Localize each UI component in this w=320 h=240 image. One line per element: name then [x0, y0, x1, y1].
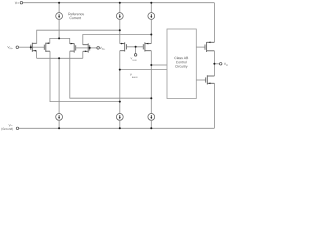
node: rail-I5: [119, 127, 121, 129]
transistor T4: [83, 43, 90, 52]
node: drain bus / I4: [58, 57, 60, 59]
current source I5: stem to rail: [119, 120, 121, 128]
terminal Vin+: [97, 47, 100, 50]
wire: T5 drain long drop to I5: [119, 51, 121, 114]
node: outer-left tail: [119, 29, 121, 31]
wire: Vin+ lead to T4 gate: [90, 47, 97, 49]
label Vbias2: [130, 74, 138, 78]
label (Ground): [1, 128, 13, 131]
terminal Vin-: [16, 46, 19, 49]
label Class AB Control Circuitry: [174, 57, 188, 59]
current source I3: arrow: [150, 14, 152, 18]
node: rail-I3: [150, 2, 152, 4]
node: T4 gate: [89, 47, 91, 49]
node: output: [213, 63, 215, 65]
wire: T3 drain down and right to I6 node: [70, 51, 152, 98]
current source I1 reference: stem from rail: [58, 3, 60, 13]
class AB control circuitry box U1: [167, 29, 196, 99]
current source I1 reference: arrow: [58, 14, 60, 18]
wire: inner pair tail (T2-T3 sources): [50, 38, 70, 43]
label V-: [9, 124, 13, 126]
node: rail-I4: [58, 127, 60, 129]
current source I5: arrow: [119, 115, 121, 119]
current source I4: stem to rail: [58, 120, 60, 128]
terminal Vo: [219, 63, 222, 66]
node: T6 drain box tap: [150, 64, 152, 66]
node: T5 drain box tap: [119, 69, 121, 71]
current source I3: stem from rail: [150, 3, 152, 13]
wire: T5 gate to T6 gate (bias line): [126, 46, 143, 48]
label Vin+: [100, 47, 106, 50]
wire: T1 gate to T2 gate: [31, 46, 45, 48]
wire: T6 drain tap to class AB box upper input: [151, 64, 167, 66]
node: T3 drain at I6: [150, 97, 152, 99]
transistor Q8 output NMOS: [206, 75, 215, 84]
wire: output node to Vo terminal: [214, 63, 219, 65]
current source I2: circle: [116, 13, 123, 20]
current source I1: stem to inner tail node: [58, 19, 60, 38]
current source I3: stem to outer-right tail node: [150, 19, 152, 34]
transistor Q7 output PMOS: [205, 42, 214, 53]
current source I2: stem to outer-left tail node: [119, 19, 121, 30]
label V+: [15, 2, 19, 4]
wire: I3 node down to T6 source: [150, 35, 152, 44]
wire: bus to current source I4: [58, 58, 60, 113]
wire: I2 node down to T5 source: [119, 30, 121, 43]
node: outer-right tail: [150, 34, 152, 36]
current source I6: arrow: [150, 115, 152, 119]
current source I6: stem to rail: [150, 120, 152, 128]
label Vin-: [7, 46, 13, 49]
node: rail-I6: [150, 127, 152, 129]
transistor T6: [143, 42, 151, 51]
wire: V+ rail right drop to output PMOS source: [213, 3, 215, 43]
wire: box output to Q8 gate: [196, 79, 205, 81]
wire: T6 drain long drop to I6: [150, 51, 152, 114]
terminal V+: [20, 1, 23, 4]
label Reference Current: [68, 13, 84, 16]
node: T1 gate: [30, 46, 32, 48]
current source I5: circle: [116, 114, 123, 121]
node: rail-I1: [58, 2, 60, 4]
wire: T2 drain down and right to I5 node: [50, 51, 120, 101]
terminal V- (Ground): [16, 127, 19, 130]
node: rail-I2: [119, 2, 121, 4]
wire: T4 drain down to first-stage bus: [82, 51, 84, 58]
terminal Vbias: [134, 54, 137, 57]
current source I4: circle: [56, 114, 63, 121]
label Vo: [224, 63, 228, 66]
wire: outer-left tail T1 source to I2 node: [37, 30, 120, 43]
wire: box output to Q7 gate: [196, 46, 205, 48]
node: Vbias gate line: [135, 46, 137, 48]
label Vbias1: [131, 58, 137, 61]
wire: Vin- lead to T1 gate: [19, 46, 31, 48]
wire: bias stem to Vbias terminal: [135, 47, 137, 54]
current source I2: arrow: [119, 14, 121, 18]
wire: T3 gate to T4 gate: [76, 47, 90, 49]
node: T2 drain at I5: [119, 101, 121, 103]
current source I1 reference: circle: [56, 13, 63, 20]
transistor T5: [120, 42, 127, 51]
wire: bottom V- rail: [19, 127, 215, 129]
transistor T3: [70, 43, 76, 53]
current source I3: circle: [148, 13, 155, 20]
wire: rail riser to output NMOS source: [213, 83, 215, 128]
wire: T1 drain down to first-stage bus: [36, 51, 38, 59]
current source I2: stem from rail: [119, 3, 121, 13]
node: inner tail: [58, 37, 60, 39]
current source I6: circle: [148, 114, 155, 121]
wire: first-stage drain bus T1-T4: [37, 57, 83, 59]
transistor T2: [44, 42, 50, 52]
wire: outer-right tail T4 source to I3 node: [83, 35, 152, 45]
wire: Q7 drain down to output node: [213, 51, 215, 76]
wire: T5 drain tap to class AB box lower input: [120, 69, 167, 71]
wire: top V+ rail: [23, 2, 215, 4]
current source I4: arrow: [58, 115, 60, 119]
transistor T1: [31, 43, 37, 52]
